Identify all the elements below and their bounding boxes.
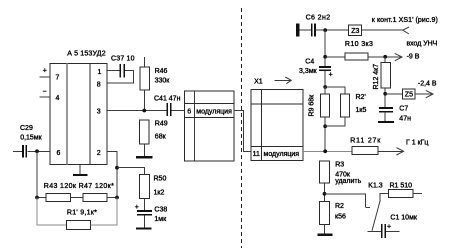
- svg-text:вход УНЧ: вход УНЧ: [407, 41, 438, 48]
- node R46/R49: [142, 109, 146, 113]
- node C6 out: [323, 28, 327, 32]
- svg-text:+: +: [135, 204, 139, 211]
- resistor R2: [320, 202, 330, 225]
- arrow G 1kHz: [396, 148, 403, 155]
- svg-text:Г 1 кГц: Г 1 кГц: [406, 139, 428, 146]
- svg-text:R1 510: R1 510: [390, 182, 413, 189]
- svg-text:C4: C4: [305, 59, 314, 66]
- modulator box left: [184, 91, 234, 161]
- svg-text:6: 6: [187, 109, 191, 116]
- wire R1' right up: [91, 198, 117, 226]
- wire to C6: [299, 29, 311, 31]
- svg-text:-2,4 В: -2,4 В: [418, 80, 437, 87]
- svg-text:R1' 9,1к*: R1' 9,1к*: [67, 210, 97, 217]
- resistor R12: [381, 63, 390, 88]
- op-amp divider right: [89, 64, 91, 165]
- wire to Z5: [385, 93, 403, 95]
- wire R3 down: [324, 183, 326, 202]
- node C4 bottom: [323, 85, 327, 89]
- resistor R50: [140, 175, 150, 199]
- svg-text:R43 120к R47 120к*: R43 120к R47 120к*: [44, 183, 114, 190]
- filter Z5: [403, 89, 415, 99]
- node R10 tap: [323, 55, 327, 59]
- stub above R46: [144, 57, 146, 67]
- capacitor C1: [381, 224, 383, 238]
- node pin11: [323, 149, 327, 153]
- svg-text:47н: 47н: [399, 115, 411, 122]
- wire C37 to pin8: [107, 71, 134, 84]
- svg-text:R12 4к7: R12 4к7: [373, 64, 380, 90]
- switch arm K1.3: [372, 200, 380, 231]
- svg-text:C37 10: C37 10: [111, 56, 135, 63]
- wire R2 down: [324, 225, 326, 234]
- svg-text:Z3: Z3: [351, 28, 359, 35]
- node R12 top: [383, 55, 387, 59]
- pin 7 stub: [39, 76, 50, 78]
- wire C6 node down: [324, 30, 326, 67]
- svg-text:А 5 153УД2: А 5 153УД2: [67, 50, 105, 57]
- svg-text:модуляция: модуляция: [196, 109, 232, 116]
- wire pin3: [107, 110, 167, 112]
- terminal bar input C6: [296, 23, 299, 36]
- svg-text:R9 68к: R9 68к: [309, 94, 316, 117]
- svg-text:3,3мк: 3,3мк: [299, 68, 318, 75]
- svg-text:C29: C29: [20, 125, 33, 132]
- resistor R9: [321, 94, 330, 117]
- ground under C7: [378, 121, 394, 123]
- svg-text:к56: к56: [335, 214, 346, 221]
- wire R12 down: [384, 88, 386, 108]
- svg-text:+: +: [329, 72, 333, 79]
- svg-text:1мк: 1мк: [154, 216, 167, 223]
- capacitor C37: [119, 64, 121, 77]
- wire C41 to modbox: [172, 110, 185, 112]
- node left R43: [35, 196, 39, 200]
- resistor R49: [140, 120, 150, 144]
- wire R47 right: [107, 197, 117, 199]
- wire C1 right: [386, 230, 400, 232]
- svg-text:Z5: Z5: [405, 92, 413, 99]
- wire left to R43: [37, 197, 46, 199]
- resistor R46: [140, 67, 150, 90]
- wire Z3 to connector: [362, 29, 403, 31]
- wire C29 to pin6: [27, 150, 50, 152]
- resistor R11: [352, 146, 378, 154]
- wire R1 left to contact: [380, 194, 388, 201]
- wire left down to R1': [37, 198, 67, 226]
- wire C6 to Z3: [316, 29, 349, 31]
- capacitor C6: [311, 23, 313, 36]
- wire to R50: [117, 168, 145, 175]
- svg-text:X1: X1: [254, 79, 263, 86]
- wire R50 to C38: [144, 199, 146, 211]
- arrow after Z5: [415, 93, 433, 95]
- op-amp divider grey: [66, 64, 68, 165]
- wire modbox to X1: [234, 111, 251, 152]
- ground under R49: [136, 156, 152, 158]
- wire R2' bottom: [325, 117, 345, 126]
- svg-text:R2: R2: [335, 203, 344, 210]
- svg-text:330к: 330к: [155, 78, 171, 85]
- svg-text:K1.3: K1.3: [368, 182, 383, 189]
- wire C29 left: [13, 150, 22, 152]
- resistor R2': [341, 94, 350, 117]
- svg-text:1к2: 1к2: [154, 190, 165, 197]
- wire arm to C1: [368, 230, 382, 232]
- svg-text:C7: C7: [399, 105, 408, 112]
- capacitor C29: [22, 145, 24, 158]
- wire down from C29 node: [36, 151, 38, 197]
- svg-text:C1 10мк: C1 10мк: [390, 214, 417, 221]
- svg-text:0,15мк: 0,15мк: [20, 134, 42, 141]
- svg-text:68к: 68к: [155, 134, 167, 141]
- resistor R10: [345, 53, 368, 60]
- svg-text:C41 47н: C41 47н: [154, 95, 181, 102]
- arrow -9V: [395, 53, 402, 60]
- svg-text:−: −: [43, 89, 47, 96]
- wire pin11 row: [303, 150, 352, 152]
- arrow X1: [275, 79, 291, 81]
- wire R1 right: [413, 193, 422, 195]
- wire R11 to arrow: [378, 150, 403, 152]
- wire R46 to pin3 wire: [144, 90, 146, 111]
- wire junction to switch: [325, 194, 366, 207]
- ground under R2: [318, 234, 333, 236]
- svg-text:R50: R50: [154, 176, 167, 183]
- svg-text:8: 8: [97, 82, 101, 89]
- X1 modulator box: [251, 90, 303, 161]
- resistor R47: [83, 194, 107, 202]
- wire R9 down: [324, 117, 326, 151]
- svg-text:3: 3: [97, 109, 101, 116]
- dashed separator line: [241, 8, 243, 248]
- wire C7 down: [384, 112, 386, 121]
- wire R10 node to R12: [384, 57, 386, 63]
- svg-text:R10 3к3: R10 3к3: [345, 41, 373, 48]
- svg-text:4: 4: [56, 95, 60, 102]
- svg-text:C6 2н2: C6 2н2: [306, 15, 331, 22]
- capacitor C41: [166, 103, 168, 116]
- wire pin1 to C37: [107, 70, 120, 72]
- svg-text:R49: R49: [155, 121, 168, 128]
- svg-text:1: 1: [98, 69, 102, 76]
- wire R10 right: [368, 56, 402, 58]
- svg-text:-9 В: -9 В: [407, 53, 420, 60]
- switch contact tick: [366, 206, 371, 208]
- svg-text:6: 6: [57, 150, 61, 157]
- node R9 bottom: [323, 124, 327, 128]
- capacitor C38 polarized: [137, 210, 152, 212]
- connector symbol: [403, 27, 409, 34]
- svg-text:7: 7: [56, 75, 60, 82]
- svg-text:удалить: удалить: [335, 178, 361, 185]
- wire pin2: [107, 151, 117, 197]
- wire C38 down: [144, 215, 146, 227]
- svg-text:R3: R3: [335, 161, 344, 168]
- wire to R10: [325, 56, 345, 58]
- svg-text:к конт.1 XS1' (рис.9): к конт.1 XS1' (рис.9): [372, 17, 438, 24]
- ground under op-amp: [79, 165, 81, 175]
- svg-text:+: +: [43, 68, 47, 75]
- node at C29 junction: [35, 149, 39, 153]
- svg-text:+: +: [387, 224, 391, 231]
- wire R49 down: [143, 144, 145, 156]
- filter Z3: [349, 25, 362, 36]
- node Z5/C7: [383, 92, 387, 96]
- wire R43-R47: [71, 197, 83, 199]
- node R50 branch: [115, 166, 119, 170]
- resistor R3: [320, 161, 330, 183]
- svg-text:R2': R2': [356, 94, 366, 101]
- wire C4 down: [324, 71, 326, 87]
- ground under C38: [136, 227, 152, 229]
- resistor R43: [46, 194, 71, 202]
- svg-text:R11 27к: R11 27к: [350, 138, 381, 145]
- resistor R1': [67, 220, 91, 229]
- capacitor C4 polarized: [319, 66, 331, 68]
- pin 4 stub: [39, 96, 50, 98]
- svg-text:C38: C38: [154, 207, 167, 214]
- resistor R1: [388, 189, 413, 197]
- node right R47: [115, 196, 119, 200]
- wire C4 node to R9: [324, 87, 326, 94]
- node R3 bottom: [323, 192, 327, 196]
- svg-text:11: 11: [253, 151, 260, 158]
- op-amp U1 box: [50, 64, 107, 165]
- svg-text:1к5: 1к5: [356, 107, 367, 114]
- wire C4 node to R2': [325, 87, 345, 94]
- svg-text:R46: R46: [155, 68, 168, 75]
- svg-text:модуляция: модуляция: [264, 151, 300, 158]
- capacitor C7: [379, 107, 393, 109]
- svg-text:2: 2: [97, 150, 101, 157]
